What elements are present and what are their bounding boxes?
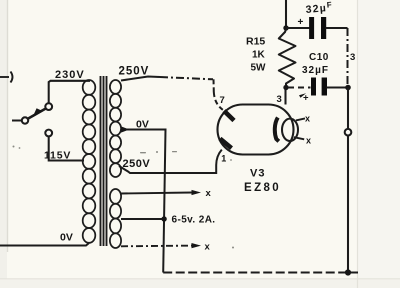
- svg-text:R15: R15: [246, 36, 265, 48]
- wire left stub with connector mark: [0, 72, 13, 83]
- wire 0V centre tap: [121, 126, 166, 272]
- svg-text:3: 3: [350, 52, 355, 63]
- wire heater bottom tap to X: [121, 243, 201, 248]
- transformer T1 primary winding: [83, 80, 96, 243]
- label x heater lead bottom: [306, 136, 311, 146]
- wire HT feed from top edge: [285, 0, 287, 30]
- wire mains live stub: [12, 120, 22, 122]
- label 230V: [55, 69, 85, 81]
- resistor R15: [279, 29, 296, 88]
- svg-text:C10: C10: [309, 52, 329, 63]
- capacitor C9 32uF top: [286, 17, 348, 39]
- svg-text:1K: 1K: [252, 50, 266, 61]
- svg-text:V3: V3: [250, 168, 265, 180]
- svg-text:0V: 0V: [60, 232, 73, 244]
- tube V3 envelope: [218, 105, 294, 155]
- label 3 right rail: [350, 52, 355, 63]
- label 250V bottom: [123, 158, 151, 170]
- label C10 32uF: [302, 52, 329, 76]
- svg-text:x: x: [206, 188, 212, 199]
- wire right rail top (node 3): [347, 28, 349, 88]
- svg-text:250V: 250V: [119, 66, 150, 78]
- tube V3 heater circle: [282, 119, 298, 141]
- label x heater lead top: [305, 114, 310, 124]
- label pin 1: [221, 154, 226, 164]
- wire 250V top tap to pin 7: [121, 77, 223, 110]
- label 250V top: [119, 66, 150, 78]
- wire heater lead bottom x: [294, 137, 304, 139]
- label R15 1K 5W: [246, 36, 266, 74]
- wire 0V primary bottom: [0, 243, 89, 246]
- wire 250V bottom tap to pin 1: [119, 150, 222, 173]
- svg-text:+: +: [298, 17, 304, 28]
- svg-text:6-5v. 2A.: 6-5v. 2A.: [172, 215, 216, 226]
- svg-text:250V: 250V: [123, 158, 151, 170]
- svg-text:x: x: [305, 114, 310, 124]
- svg-text:230V: 230V: [55, 69, 85, 81]
- label pin 3: [277, 94, 282, 105]
- svg-text:0V: 0V: [136, 119, 149, 131]
- wire heater lead top x: [296, 118, 305, 120]
- label x heater bottom: [205, 242, 211, 253]
- label 115V: [44, 150, 71, 162]
- capacitor C10 32uF: [288, 78, 348, 104]
- wire heater centre tap: [121, 216, 167, 221]
- label x heater top: [206, 188, 212, 199]
- transformer T1 heater winding 6.5V: [110, 189, 121, 248]
- svg-text:32µF: 32µF: [302, 65, 329, 76]
- terminal ring right rail: [345, 129, 352, 136]
- wire heater top tap to X: [121, 190, 201, 195]
- junction top of R15: [283, 25, 288, 30]
- label pin 7: [220, 95, 225, 106]
- transformer T1 HV secondary winding: [110, 80, 121, 177]
- svg-text:x: x: [306, 136, 311, 146]
- wire pin 3 lead: [284, 88, 286, 105]
- label 0V centre tap: [136, 119, 149, 131]
- stray specks: [13, 146, 235, 249]
- junction bottom right corner: [345, 269, 351, 275]
- label 32uF top: [305, 0, 334, 16]
- wire 230V tap: [49, 81, 90, 103]
- label 6-5V 2A: [172, 215, 216, 226]
- tube V3 cathode stroke: [275, 118, 279, 142]
- label V3: [250, 168, 265, 180]
- svg-text:5W: 5W: [251, 63, 267, 74]
- transformer T1 core: [101, 76, 107, 246]
- wire 115V tap: [49, 136, 84, 160]
- tube V3 anode plate top: [224, 111, 234, 121]
- svg-text:EZ80: EZ80: [244, 182, 281, 194]
- svg-text:+: +: [303, 93, 309, 104]
- label 0V primary: [60, 232, 73, 244]
- svg-text:115V: 115V: [44, 150, 71, 162]
- svg-text:1: 1: [221, 154, 226, 164]
- switch S1: [22, 103, 52, 136]
- wire bottom rail: [163, 272, 358, 274]
- label EZ80: [244, 182, 281, 194]
- wire right rail: [347, 88, 349, 273]
- tube V3 anode plate bottom: [220, 139, 232, 149]
- svg-text:3: 3: [277, 94, 282, 105]
- junction C10 right: [345, 85, 351, 91]
- svg-text:7: 7: [220, 95, 225, 106]
- junction bottom of R15: [283, 85, 288, 90]
- svg-text:x: x: [205, 242, 211, 253]
